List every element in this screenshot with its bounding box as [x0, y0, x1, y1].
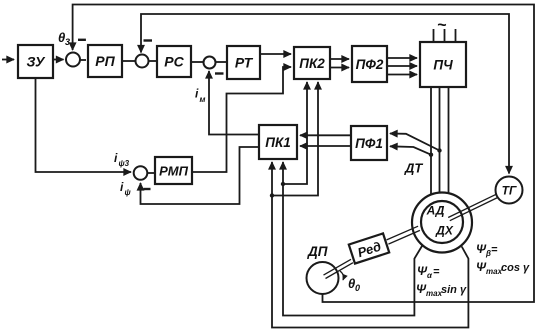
svg-text:РС: РС: [164, 54, 184, 70]
label iψз: [114, 151, 130, 168]
label Ψmax sin γ: [416, 282, 467, 298]
wire ψα hall signal to ПК1: [283, 162, 423, 316]
circle ТГ tachogenerator: [496, 177, 523, 204]
wire position feedback loop ДП to J1: [73, 5, 534, 303]
block РС: [157, 46, 191, 77]
svg-text:sin γ: sin γ: [441, 284, 467, 296]
node J2 summing junction: [136, 55, 149, 68]
svg-text:РМП: РМП: [159, 164, 189, 179]
node dot ψβ branch: [270, 193, 274, 197]
wire РП to node J2: [122, 60, 136, 62]
svg-text:cos γ: cos γ: [501, 262, 530, 274]
node J4 summing junction: [134, 166, 148, 180]
wire ψβ branch to ПК2: [272, 82, 318, 196]
wire J4 to РМП: [147, 172, 154, 174]
node tap dot phase 2: [437, 148, 441, 152]
node J3 summing junction: [204, 57, 216, 69]
wire РТ to ПК2: [260, 53, 291, 55]
wire РМП to ПК2: [192, 67, 291, 172]
svg-text:0: 0: [355, 283, 360, 293]
svg-text:ЗУ: ЗУ: [27, 54, 46, 70]
shaft Ред to ДП: [324, 259, 354, 278]
svg-text:РП: РП: [95, 53, 115, 69]
label Ψmax cos γ: [476, 260, 530, 276]
wire phase line 2 ПЧ to motor: [439, 87, 441, 193]
wire J2 to РС: [149, 60, 157, 62]
label minus at J1: [78, 39, 86, 41]
label iψ: [120, 180, 132, 197]
wire ПФ2 to ПЧ line 2: [387, 65, 417, 67]
wire ПК2 to ПФ2 line 1: [330, 58, 349, 60]
wire ψα branch to ПК2: [283, 82, 307, 184]
wire РС to node J3: [191, 61, 203, 63]
block РП: [88, 45, 122, 77]
wire iψ feedback ПК1 to J4: [141, 147, 260, 204]
wire ЗУ to node J4 flux reference: [36, 78, 132, 172]
block ЗУ: [18, 45, 53, 78]
svg-text:АД: АД: [426, 204, 445, 218]
wire supply stub 2: [444, 29, 446, 42]
wire ПК2 to ПФ2 line 2: [330, 67, 349, 69]
block ПК2: [294, 47, 330, 79]
label minus at J2: [144, 39, 153, 41]
svg-text:ДП: ДП: [307, 244, 328, 259]
shaft motor to ТГ: [448, 194, 498, 220]
label θ0 with arc: [340, 271, 360, 293]
svg-text:м: м: [200, 95, 206, 104]
wire supply stub 3: [455, 29, 457, 42]
wire J3 to РТ: [216, 61, 227, 63]
svg-text:ПФ1: ПФ1: [355, 136, 383, 151]
wire ψβ hall signal to ПК1: [272, 162, 468, 328]
wire speed feedback ТГ to J2: [141, 14, 509, 174]
wire phase line 3 ПЧ to motor: [448, 87, 450, 193]
wire current tap ДТ to ПФ1 upper: [390, 134, 440, 151]
svg-text:ПК2: ПК2: [299, 56, 325, 71]
wire iм feedback ПК1 to J3: [209, 71, 259, 135]
wire ПФ1 to ПК1 line 2: [300, 145, 351, 147]
label minus at J4: [144, 188, 151, 190]
circle ДП position sensor: [307, 262, 339, 294]
svg-text:ψ3: ψ3: [119, 159, 130, 168]
wire ПФ2 to ПЧ line 3: [387, 74, 417, 76]
svg-text:ψ: ψ: [125, 188, 132, 197]
svg-text:=: =: [433, 266, 440, 278]
wire ЗУ to node J1: [53, 59, 64, 61]
svg-text:=: =: [491, 244, 498, 256]
block РМП: [155, 157, 192, 184]
block РТ: [227, 46, 260, 79]
label minus at J3: [215, 72, 224, 74]
node tap dot phase 1: [429, 153, 433, 157]
wire phase line 1 ПЧ to motor: [430, 87, 432, 195]
svg-text:ТГ: ТГ: [502, 184, 517, 198]
svg-text:ПФ2: ПФ2: [356, 57, 384, 72]
wire ПФ1 to ПК1 line 1: [300, 134, 351, 136]
block ПФ2: [352, 46, 387, 82]
svg-text:ПЧ: ПЧ: [433, 58, 453, 73]
label iм: [195, 87, 206, 105]
block ПК1: [259, 125, 297, 159]
svg-text:3: 3: [65, 37, 70, 47]
shaft motor to Ред: [387, 226, 420, 244]
wire input arrow to ЗУ: [2, 59, 14, 61]
svg-text:~: ~: [437, 17, 447, 34]
motor АД with ДХ: [412, 193, 472, 253]
wire J1 to РП: [80, 59, 86, 61]
svg-text:РТ: РТ: [235, 55, 254, 71]
label Ψβ=: [476, 242, 498, 258]
block ПФ1: [351, 126, 387, 160]
label Ψα=: [417, 264, 440, 280]
block ПЧ: [420, 42, 466, 87]
svg-text:ДТ: ДТ: [404, 161, 423, 176]
block Ред reducer: [349, 233, 389, 263]
node dot ψα branch: [281, 182, 285, 186]
label θ3: [58, 30, 70, 47]
wire supply stub 1: [433, 29, 435, 42]
wire ПФ2 to ПЧ line 1: [387, 57, 417, 59]
svg-text:ПК1: ПК1: [265, 135, 291, 150]
wire current tap ДТ to ПФ1 lower: [390, 146, 431, 154]
node J1 summing junction: [66, 53, 80, 67]
svg-text:ДХ: ДХ: [435, 224, 454, 238]
